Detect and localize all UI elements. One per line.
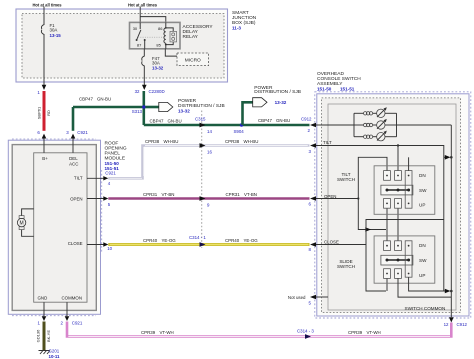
- console entry arrow pin 6 OPEN: [310, 196, 316, 201]
- arrow into module pin 3 C921: [71, 134, 76, 139]
- wire CBP47 GN-BU drop to module DEL ACC: [72, 107, 75, 131]
- svg-text:CBP47: CBP47: [258, 118, 272, 123]
- svg-text:C314 - 3: C314 - 3: [297, 329, 314, 334]
- tilt switch box: [374, 166, 435, 215]
- svg-text:Not used: Not used: [288, 295, 306, 300]
- relay box accessory delay relay: [130, 22, 181, 48]
- svg-text:13-32: 13-32: [178, 109, 190, 114]
- junction S313: [142, 105, 145, 108]
- illumination lamp 1: [354, 107, 397, 117]
- svg-text:SWITCH: SWITCH: [337, 177, 355, 182]
- label Hot at all times (right): [126, 1, 159, 8]
- svg-text:CPR38: CPR38: [145, 139, 160, 144]
- illumination lamp 3: [354, 131, 397, 141]
- svg-text:DN: DN: [419, 243, 426, 248]
- arrow module COMMON exit pin 2 C921: [65, 316, 70, 321]
- svg-text:SBP61: SBP61: [36, 106, 41, 119]
- wire close loop up to tilt UP2 / slide DN2: [366, 220, 444, 245]
- wire OPEN line: [316, 198, 358, 200]
- fuse F1 symbol: [41, 25, 44, 35]
- svg-text:CPR39: CPR39: [141, 330, 156, 335]
- arrow SJB exit pin 1: [42, 85, 47, 90]
- svg-text:13-32: 13-32: [275, 100, 287, 105]
- wire CPR39 VT-WH: [67, 322, 451, 337]
- svg-text:YE-OG: YE-OG: [244, 238, 259, 243]
- module GND exit lead: [43, 302, 45, 316]
- illumination lamp 2: [354, 119, 397, 129]
- wire module B+ lead: [43, 139, 45, 153]
- svg-text:GN-BU: GN-BU: [97, 97, 111, 102]
- label ROOF OPENING PANEL MODULE: [105, 141, 127, 172]
- svg-text:CPR40: CPR40: [143, 238, 158, 243]
- svg-text:CPR40: CPR40: [225, 238, 240, 243]
- svg-text:CPR31: CPR31: [226, 192, 241, 197]
- label OVERHEAD CONSOLE SWITCH ASSEMBLY: [317, 71, 361, 92]
- svg-text:YE-OG: YE-OG: [162, 238, 177, 243]
- svg-text:10-11: 10-11: [49, 354, 61, 359]
- wire CPR40 YE-OG close: [108, 243, 309, 246]
- wire GD136 BK-YE ground: [43, 322, 46, 351]
- svg-text:VT-WH: VT-WH: [367, 330, 381, 335]
- C315 crossing pin 16: [200, 143, 206, 148]
- svg-text:SW: SW: [419, 188, 427, 193]
- svg-text:GN-BU: GN-BU: [168, 119, 182, 124]
- module exit arrow pin 4 C921: [87, 177, 104, 179]
- svg-text:C921: C921: [72, 320, 83, 325]
- switch common bus vertical: [450, 125, 452, 317]
- svg-text:WH-BU: WH-BU: [244, 139, 259, 144]
- svg-text:C2280D: C2280D: [149, 89, 165, 94]
- svg-text:GD136: GD136: [36, 329, 41, 342]
- svg-text:SW: SW: [419, 258, 427, 263]
- wire tilt common long vertical: [443, 157, 445, 291]
- tilt switch contact UP1: [384, 199, 391, 209]
- svg-text:13-32: 13-32: [152, 65, 164, 70]
- svg-text:12: 12: [444, 322, 449, 327]
- svg-text:DN: DN: [419, 173, 426, 178]
- svg-text:DISTRIBUTION / SJB: DISTRIBUTION / SJB: [254, 89, 301, 95]
- roof opening panel module connector dashed boundary C921 top: [12, 138, 96, 140]
- wire TILT line: [316, 146, 444, 158]
- module COMMON exit lead: [66, 302, 68, 316]
- svg-text:CPR31: CPR31: [143, 192, 158, 197]
- svg-text:CPR38: CPR38: [225, 139, 240, 144]
- svg-text:10: 10: [107, 246, 112, 251]
- svg-text:GN-BU: GN-BU: [276, 118, 290, 123]
- svg-text:CBP47: CBP47: [79, 97, 93, 102]
- wire hot feed right to relay pin 30: [139, 7, 141, 23]
- wire lamps to common bus: [397, 124, 452, 126]
- slide switch common contact: [405, 241, 412, 277]
- slide switch contact UP2: [395, 269, 402, 279]
- C314 crossing pin 9: [200, 196, 206, 201]
- svg-text:C912: C912: [457, 322, 468, 327]
- svg-text:UP: UP: [419, 273, 425, 278]
- svg-text:M: M: [20, 221, 24, 227]
- power distribution arrow 1: [159, 102, 173, 111]
- power distribution arrow 2: [253, 98, 267, 107]
- wire S904 up to power distribution arrow 2: [243, 102, 253, 125]
- svg-text:DEL: DEL: [69, 156, 78, 161]
- svg-text:S904: S904: [234, 129, 245, 134]
- roof opening panel module outer box: [12, 145, 96, 311]
- svg-text:UP: UP: [419, 202, 425, 207]
- wire module DEL ACC lead: [72, 139, 74, 153]
- svg-text:C912: C912: [301, 117, 312, 122]
- wire branch to relay pin 86: [140, 17, 166, 23]
- slide switch contact DN2: [395, 241, 402, 251]
- slide switch contact DN1: [384, 241, 391, 251]
- svg-text:C921: C921: [77, 130, 88, 135]
- relay coil: [165, 22, 167, 28]
- svg-text:151-51: 151-51: [340, 87, 355, 92]
- arrow into module pin 6: [42, 134, 47, 139]
- wire stub S313 to power distribution arrow: [144, 106, 159, 109]
- console entry arrow pin 8 CLOSE: [310, 242, 316, 247]
- wire open loop over to tilt DN1: [358, 157, 387, 198]
- wire hot feed left into fuse F1: [43, 7, 45, 26]
- svg-text:13-15: 13-15: [50, 33, 62, 38]
- svg-text:87: 87: [137, 43, 142, 48]
- svg-text:GND: GND: [38, 296, 48, 301]
- smart junction box dashed boundary: [22, 14, 224, 79]
- svg-text:VT-BN: VT-BN: [162, 192, 175, 197]
- svg-text:151-50: 151-50: [317, 87, 332, 92]
- connector dashed boundary C921 right: [101, 170, 103, 252]
- overhead console inner solid box: [328, 104, 456, 310]
- wire relay 87 to fuse F47: [143, 49, 145, 57]
- roof opening panel module inner box: [34, 153, 87, 302]
- wire relay 85 to micro: [165, 49, 177, 56]
- wire fuse F47 to SJB exit: [143, 66, 145, 86]
- motor M in module: [17, 209, 33, 236]
- svg-text:SWITCH: SWITCH: [337, 264, 355, 269]
- svg-text:86: 86: [158, 26, 163, 31]
- wire slide UP2 to bus: [398, 278, 451, 297]
- module exit arrow pin 5: [87, 198, 104, 200]
- svg-text:14: 14: [207, 129, 212, 134]
- wire CLOSE line: [316, 244, 366, 246]
- wire CPR38 WH-BU tilt: [108, 146, 309, 179]
- ground symbol G201: [39, 351, 51, 355]
- svg-text:WH-BU: WH-BU: [164, 139, 179, 144]
- svg-text:VT-BN: VT-BN: [244, 192, 257, 197]
- svg-text:TILT: TILT: [323, 140, 332, 145]
- console feed line from pin 2 to lamps: [316, 124, 354, 126]
- relay actuation dotted line: [138, 36, 163, 38]
- arrow console exit pin 12 C912: [449, 317, 454, 322]
- arrow tilt common into bus: [444, 156, 446, 158]
- wire SBP61 RD red: [43, 91, 46, 131]
- inline connector C315/C314 dashed line: [201, 111, 203, 249]
- smart junction box outer boundary: [16, 9, 228, 82]
- micro box: [177, 53, 209, 66]
- wire CBP47 GN-BU vertical from pin 32: [143, 91, 146, 125]
- svg-text:BK-YE: BK-YE: [46, 330, 51, 342]
- svg-text:Hot at all times: Hot at all times: [128, 2, 158, 7]
- slide switch wiper bar SW: [381, 255, 413, 265]
- svg-text:C315: C315: [195, 116, 206, 121]
- svg-text:S313: S313: [132, 109, 143, 114]
- svg-text:11-3: 11-3: [232, 25, 241, 30]
- connector dashed boundary C921 bottom: [12, 315, 96, 317]
- overhead console switch assembly dashed boundary: [322, 98, 461, 313]
- svg-text:OPEN: OPEN: [70, 196, 82, 201]
- svg-text:B+: B+: [42, 156, 48, 161]
- wire close loop down to slide UP1: [366, 245, 386, 292]
- svg-text:16: 16: [207, 149, 212, 154]
- lamp group left rail: [353, 113, 355, 136]
- slide switch contact UP1: [384, 269, 391, 279]
- wire CBP47 GN-BU horizontal run to console: [144, 124, 310, 127]
- arrow module GND exit pin 1: [42, 316, 47, 321]
- wire tilt common to bus: [408, 157, 410, 170]
- wire CBP47 GN-BU horizontal to module branch: [73, 106, 144, 109]
- roof opening panel module lavender boundary: [8, 140, 100, 314]
- svg-text:SWITCH COMMON: SWITCH COMMON: [405, 306, 446, 311]
- svg-text:COMMON: COMMON: [62, 296, 83, 301]
- tilt switch contact UP2: [395, 199, 402, 209]
- arrow SJB exit pin 32: [142, 85, 147, 90]
- svg-text:30: 30: [133, 26, 138, 31]
- module exit arrow pin 10: [87, 244, 104, 246]
- fuse F47 symbol: [142, 56, 145, 66]
- svg-text:85: 85: [156, 43, 161, 48]
- svg-text:CBP47: CBP47: [150, 119, 164, 124]
- svg-text:CPR39: CPR39: [348, 330, 363, 335]
- wire CPR31 VT-BN open: [108, 197, 309, 200]
- svg-text:ACC: ACC: [69, 162, 78, 167]
- svg-text:C314 - 1: C314 - 1: [189, 235, 206, 240]
- label Hot at all times (left): [30, 1, 63, 8]
- wire slide common to bus with arrow: [409, 277, 446, 291]
- tilt switch contact DN2: [395, 171, 402, 181]
- relay suppression element: [166, 28, 173, 45]
- node tilt line to DN2: [397, 144, 399, 146]
- wire fuse F1 to SJB exit: [43, 34, 45, 85]
- svg-text:MICRO: MICRO: [185, 57, 201, 63]
- junction S904: [240, 123, 243, 126]
- overhead console switch assembly dashed connector boundary: [315, 92, 471, 318]
- svg-text:RELAY: RELAY: [183, 34, 199, 40]
- svg-text:RD: RD: [46, 110, 51, 116]
- label SMART JUNCTION BOX (SJB): [232, 10, 257, 30]
- svg-text:TILT: TILT: [74, 176, 83, 181]
- tilt switch contact DN1: [384, 171, 391, 181]
- svg-text:32: 32: [135, 89, 140, 94]
- tilt switch common contact: [405, 171, 412, 209]
- wire open loop down to tilt UP1 / slide DN1: [358, 199, 386, 230]
- tilt switch wiper bar SW: [381, 185, 413, 195]
- relay switch blade pin 30 to 87: [139, 22, 141, 29]
- svg-text:VT-WH: VT-WH: [160, 330, 174, 335]
- svg-text:CLOSE: CLOSE: [324, 240, 339, 245]
- console entry arrow pin 3 TILT: [310, 143, 316, 148]
- svg-text:CLOSE: CLOSE: [68, 241, 83, 246]
- slide switch box: [374, 236, 435, 283]
- lamp group right rail: [396, 113, 398, 136]
- svg-text:Hot at all times: Hot at all times: [32, 2, 62, 7]
- svg-text:C921: C921: [105, 171, 116, 176]
- overhead console switch assembly outer boundary: [317, 94, 469, 316]
